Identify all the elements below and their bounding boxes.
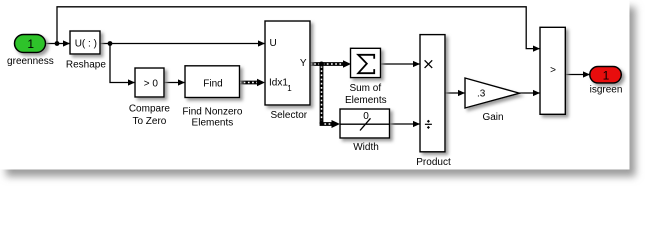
svg-text:Gain: Gain xyxy=(482,112,503,123)
svg-text:Y: Y xyxy=(300,58,307,69)
arrowhead into Selector Idx1 xyxy=(257,79,265,86)
arrowhead into Sum of Elements xyxy=(343,60,351,67)
svg-text:Width: Width xyxy=(353,142,379,153)
arrowhead into Relational top input xyxy=(533,46,540,52)
wire Reshape to Selector U xyxy=(100,43,265,45)
svg-text:0: 0 xyxy=(363,111,369,122)
wire greenness to Reshape xyxy=(45,43,70,45)
node junction after Reshape xyxy=(108,41,113,46)
svg-text:Selector: Selector xyxy=(270,110,307,121)
wire Find to Selector Idx1 (variable-size dashed) xyxy=(240,81,260,85)
svg-text:U( : ): U( : ) xyxy=(75,39,97,50)
svg-text:Elements: Elements xyxy=(192,118,234,129)
svg-text:isgreen: isgreen xyxy=(590,84,623,95)
svg-text:Reshape: Reshape xyxy=(66,60,106,71)
block Relational Operator xyxy=(540,27,565,114)
svg-text:>: > xyxy=(550,65,556,76)
arrowhead into Reshape xyxy=(63,40,70,46)
svg-text:1: 1 xyxy=(287,84,292,93)
arrowhead into Relational bottom input xyxy=(533,90,540,96)
block Product xyxy=(420,35,445,152)
block Reshape xyxy=(70,31,100,54)
svg-text:U: U xyxy=(270,38,277,49)
svg-text:Sum of: Sum of xyxy=(349,83,381,94)
arrowhead into isgreen xyxy=(583,71,590,77)
arrowhead into Compare To Zero xyxy=(128,79,135,85)
arrowhead into Width xyxy=(332,120,341,128)
svg-text:Find: Find xyxy=(203,79,222,90)
block Gain xyxy=(465,78,520,108)
svg-text:> 0: > 0 xyxy=(144,79,159,90)
node junction on Y signal xyxy=(319,62,324,67)
svg-text:Compare: Compare xyxy=(129,104,171,115)
node junction after greenness xyxy=(55,41,60,46)
svg-text:To Zero: To Zero xyxy=(132,116,166,127)
wire Relational to isgreen xyxy=(565,74,590,76)
arrowhead into Selector U xyxy=(258,40,265,46)
svg-text:1: 1 xyxy=(27,37,34,51)
wire branch down to Compare To Zero xyxy=(110,44,135,83)
inport greenness xyxy=(15,35,46,53)
svg-text:1: 1 xyxy=(603,68,610,82)
canvas page xyxy=(0,0,630,170)
block Find Nonzero Elements xyxy=(185,66,240,98)
arrowhead into Product x xyxy=(413,61,420,67)
arrowhead into Product divide xyxy=(413,121,420,127)
svg-text:.3: .3 xyxy=(477,89,486,100)
outport isgreen xyxy=(590,67,622,84)
wire Product to Gain xyxy=(445,92,465,94)
svg-text:Elements: Elements xyxy=(345,95,387,106)
block Compare To Zero xyxy=(135,68,164,97)
wire feedback up segment xyxy=(57,7,540,49)
wire Y branch down to Width (variable-size dashed) xyxy=(320,64,324,124)
arrowhead into Gain xyxy=(458,90,465,96)
arrowhead into Find xyxy=(178,79,185,85)
wire Width to Product divide xyxy=(390,123,421,125)
svg-text:Product: Product xyxy=(416,157,451,168)
svg-text:Idx1: Idx1 xyxy=(269,78,288,89)
block Sum of Elements xyxy=(351,48,381,77)
wire Gain to Relational bottom input xyxy=(520,92,541,94)
block Width xyxy=(340,109,390,138)
wire Sum of Elements to Product x xyxy=(381,63,421,65)
wire Compare To Zero to Find xyxy=(164,82,185,84)
block Selector xyxy=(265,21,310,105)
svg-text:greenness: greenness xyxy=(7,56,54,67)
wire Selector Y to Sum of Elements (variable-size dashed) xyxy=(310,62,344,66)
svg-text:Find Nonzero: Find Nonzero xyxy=(182,106,242,117)
